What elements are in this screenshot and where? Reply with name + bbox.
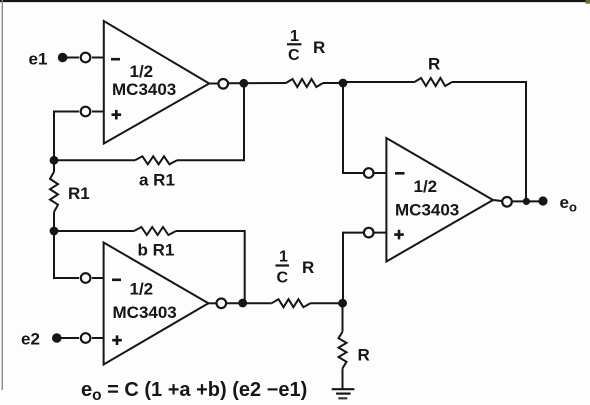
resistor a R1 zigzag [135, 156, 177, 164]
svg-text:C: C [277, 270, 289, 287]
wire top node down to U3 inverting input [343, 83, 364, 173]
wire b R1 left lead [54, 230, 134, 232]
node bottom middle junction [338, 299, 347, 308]
terminal bubble U3 inverting input [364, 168, 374, 178]
minus sign U2 [112, 278, 121, 281]
resistor R1 (left rail) zigzag [50, 172, 58, 212]
minus sign U1 [111, 58, 120, 61]
svg-text:1: 1 [290, 28, 299, 45]
svg-text:a R1: a R1 [139, 170, 175, 189]
op-amp U2 (1/2 MC3403, bottom left) triangle [104, 243, 209, 365]
node at U3 output feedback junction [523, 198, 530, 205]
wire U2 output to bottom 1/C R [227, 302, 272, 304]
wire junction down to resistor R (grounded) [342, 303, 344, 332]
terminal bubble U2 noninverting input [81, 333, 91, 343]
svg-text:R1: R1 [68, 184, 90, 203]
left rail junction node A [50, 156, 59, 165]
node at U1 output (junction) [239, 79, 248, 88]
svg-text:R: R [428, 55, 440, 74]
resistor b R1 zigzag [134, 227, 176, 235]
svg-text:eo = C (1 +a +b) (e2 −e1): eo = C (1 +a +b) (e2 −e1) [81, 379, 307, 404]
svg-text:R: R [302, 258, 314, 277]
op-amp U3 (1/2 MC3403, right) triangle [386, 138, 493, 262]
wire top resistor to middle node [323, 82, 343, 84]
ground [332, 388, 355, 390]
terminal dot e2 [52, 333, 62, 343]
plus sign U3 [394, 230, 404, 240]
terminal bubble U2 inverting input [81, 273, 91, 283]
wire U2 output apex to bubble [208, 302, 216, 304]
terminal dot eo [538, 196, 547, 205]
wire R to right rail and down to output node [452, 82, 526, 201]
left border frame line [1, 0, 3, 390]
wire bottom resistor to junction [310, 302, 343, 304]
node top middle junction [339, 79, 348, 88]
svg-text:MC3403: MC3403 [113, 303, 177, 322]
op-amp U1 (1/2 MC3403, top left) triangle [104, 21, 209, 144]
wire b R1 right lead down to U2 output node [176, 231, 245, 303]
svg-text:1/2: 1/2 [130, 62, 154, 81]
wire e2 to U2 noninverting input [57, 337, 79, 339]
wire a R1 left lead [54, 159, 135, 161]
scan artifact top-right corner [586, 0, 590, 4]
top border frame line [0, 0, 590, 2]
svg-text:1: 1 [279, 249, 288, 266]
svg-text:MC3403: MC3403 [395, 201, 459, 220]
svg-text:MC3403: MC3403 [112, 80, 176, 99]
terminal bubble U1 noninverting input [81, 107, 91, 117]
left rail junction node B [50, 227, 59, 236]
resistor R (to ground) zigzag [339, 332, 347, 369]
resistor 1/C R (top) zigzag [286, 79, 323, 87]
svg-text:1/2: 1/2 [130, 279, 154, 298]
wire U3 noninverting input to bottom middle rail [343, 233, 364, 304]
wire U3 output to eo [512, 200, 547, 202]
output bubble U2 [217, 299, 227, 309]
wire U3 output apex to bubble [493, 200, 502, 201]
wire U1 output bubble to node [229, 82, 287, 84]
resistor R (top right) zigzag [415, 78, 453, 86]
node at U2 output [238, 299, 247, 308]
resistor 1/C R (bottom) zigzag [272, 299, 311, 307]
svg-text:C: C [288, 47, 300, 64]
svg-text:e1: e1 [29, 50, 48, 69]
plus sign U2 [112, 335, 122, 345]
output bubble U3 [502, 197, 512, 207]
wire R to ground [342, 368, 344, 389]
svg-text:R: R [358, 346, 370, 365]
output bubble U1 [218, 79, 228, 89]
svg-text:b R1: b R1 [138, 240, 175, 259]
svg-text:e2: e2 [21, 330, 40, 349]
wire R1 lower lead [53, 160, 55, 172]
wire U1 output apex to bubble [209, 83, 218, 85]
fraction bar 1/C (bottom) [276, 264, 290, 266]
terminal bubble U1 inverting input [81, 53, 91, 63]
terminal bubble U3 noninverting input [364, 228, 374, 238]
wire top node to resistor R (feedback top) [343, 81, 415, 83]
wire a R1 right lead up to U1 output node [177, 83, 244, 160]
wire U1 noninverting input to left rail [54, 112, 79, 161]
fraction bar 1/C (top) [287, 43, 302, 45]
wire node B down to U2 inverting input [54, 231, 79, 278]
plus sign U1 [112, 110, 122, 120]
svg-text:1/2: 1/2 [414, 177, 438, 196]
wire e1 to U1 inverting input [63, 57, 79, 59]
minus sign U3 [395, 172, 405, 175]
svg-text:R: R [313, 38, 325, 57]
terminal dot e1 [58, 53, 68, 63]
